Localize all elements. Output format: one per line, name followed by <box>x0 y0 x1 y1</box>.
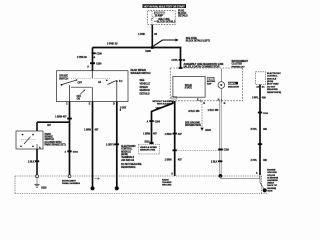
svg-text:STATE: STATE <box>185 87 193 90</box>
wire BRN 437 from cluster to ground bus <box>174 101 176 176</box>
wire BRN 437 left (switch pin C to ground bus) <box>69 102 71 175</box>
fuse F1 GAUGES FUSE label <box>154 12 172 18</box>
svg-text:S210: S210 <box>144 142 150 144</box>
label 1 BRN 437 right wire <box>165 133 183 136</box>
wire to ALDL (arrow) <box>154 39 179 47</box>
instrument cluster dashed box <box>170 68 243 101</box>
ring terminal gray wire <box>219 174 223 178</box>
svg-text:TERMINALS: TERMINALS <box>121 156 134 159</box>
see vehicle speed sensor note <box>140 79 151 96</box>
label 5 PPL 400 <box>252 97 266 100</box>
cluster without-gauges note <box>152 100 172 110</box>
svg-text:3 PNK 39: 3 PNK 39 <box>107 42 118 45</box>
svg-text:INSTRUMENT: INSTRUMENT <box>232 61 249 63</box>
svg-text:PANEL HARNESS: PANEL HARNESS <box>62 182 80 185</box>
svg-text:4 PPL: 4 PPL <box>171 59 178 62</box>
ground bus dashed band <box>15 176 267 194</box>
svg-text:SEE GROUND: SEE GROUND <box>185 123 200 125</box>
svg-text:AMP: AMP <box>207 82 212 85</box>
svg-text:5 PPL: 5 PPL <box>251 128 258 131</box>
ECM label <box>267 73 281 94</box>
svg-text:DISTRIBUTION: DISTRIBUTION <box>185 125 201 127</box>
CHECK GAUGES label <box>228 82 239 89</box>
park brake switch box <box>16 131 43 149</box>
connector C100 <box>90 62 102 65</box>
switch contact right lever <box>106 80 118 85</box>
svg-text:SPEED: SPEED <box>207 78 214 80</box>
svg-text:PARK BRAKE SET): PARK BRAKE SET) <box>45 144 66 147</box>
switch assembly box <box>57 71 129 102</box>
svg-text:ELECTRONIC: ELECTRONIC <box>267 73 281 75</box>
interior stubs <box>70 71 117 102</box>
svg-text:DETAILS: DETAILS <box>178 15 188 18</box>
svg-text:MODULE: MODULE <box>267 78 277 80</box>
tick C210 on BRN wire <box>173 149 177 151</box>
label 1 BRN 437 lower <box>165 159 183 162</box>
ALDL branch label <box>186 38 210 43</box>
svg-text:C200: C200 <box>96 54 102 56</box>
svg-text:A10 AND A9: A10 AND A9 <box>121 159 135 162</box>
svg-text:(ALDL) DATA CONNECTOR: (ALDL) DATA CONNECTOR <box>184 66 220 69</box>
label 1 BLK lower <box>211 160 222 163</box>
svg-text:PRINTED CKT: PRINTED CKT <box>232 66 246 68</box>
svg-text:1 BRN: 1 BRN <box>165 159 172 162</box>
svg-text:1 BLK: 1 BLK <box>28 161 35 164</box>
svg-text:(ECM): (ECM) <box>121 154 128 156</box>
speedometer label <box>185 84 193 90</box>
ALDL note <box>184 63 224 69</box>
svg-text:MODULE: MODULE <box>121 151 131 153</box>
ground dot right <box>115 186 119 190</box>
svg-text:HARNESS: HARNESS <box>267 179 278 182</box>
svg-text:ON: ON <box>77 99 81 101</box>
svg-text:C100: C100 <box>96 63 102 65</box>
wire PNK 39 from fuse down <box>151 25 153 48</box>
OFF ON labels <box>77 96 82 101</box>
label 2 PNK 39 <box>77 57 96 59</box>
splice S208 <box>145 46 153 53</box>
fuse block dashed box <box>148 11 176 25</box>
svg-text:(NEAR: (NEAR <box>267 182 274 185</box>
switch contact left lever <box>61 79 78 86</box>
svg-text:HOT IN RUN, BULB TEST OR START: HOT IN RUN, BULB TEST OR START <box>144 4 185 8</box>
switch box title <box>131 69 151 75</box>
svg-text:BLOCK DETAILS: BLOCK DETAILS <box>157 20 176 23</box>
svg-text:1 BRN: 1 BRN <box>84 129 91 132</box>
power feed bus bar (HOT IN RUN, BULB TEST OR START) <box>143 4 187 8</box>
wire drop to switch <box>92 48 94 71</box>
wire from park brake switch <box>37 121 70 123</box>
svg-text:OFF: OFF <box>78 82 83 84</box>
ECM box <box>256 72 266 85</box>
svg-text:CLUSTER: CLUSTER <box>232 64 243 66</box>
connector C210 tick on ECM wire <box>258 112 262 114</box>
wire BRN 437 center (switch pin E to ground) <box>92 102 94 187</box>
pin D label right <box>120 108 127 113</box>
splice S207 on left wire <box>67 118 72 120</box>
wire drop to park brake switch <box>36 122 38 131</box>
svg-text:2 PPL: 2 PPL <box>251 159 258 162</box>
svg-text:MEASURE: MEASURE <box>267 88 278 91</box>
svg-text:ELECTRONIC: ELECTRONIC <box>121 146 136 148</box>
svg-text:OFF: OFF <box>77 96 82 98</box>
svg-text:SWITCH: SWITCH <box>59 77 68 80</box>
wire PPL 400 from ECM <box>259 85 261 176</box>
vehicle speed sensor dashed box <box>138 144 159 154</box>
label 1 BRN 437 on jog wire <box>143 133 157 136</box>
svg-text:1 BRN: 1 BRN <box>165 133 172 136</box>
ECM note text block <box>121 146 142 169</box>
gauge (check gauges indicator) circle <box>218 69 225 101</box>
svg-text:S208: S208 <box>145 50 151 53</box>
label 2 PPL 400 <box>251 159 268 162</box>
cluster bottom pins <box>197 99 226 105</box>
svg-text:C210: C210 <box>224 150 230 152</box>
svg-text:CHECK: CHECK <box>228 83 236 85</box>
connector C204 tick <box>147 120 161 123</box>
fuse block location note <box>178 10 188 18</box>
svg-text:SENSOR (VSS): SENSOR (VSS) <box>140 150 155 152</box>
cluster title <box>232 61 249 68</box>
svg-text:2 PNK 39: 2 PNK 39 <box>77 57 87 59</box>
ring terminal at ground bus <box>36 175 39 178</box>
twisted pair wire BLK 450 (gray) <box>220 101 222 175</box>
connector C210 dashed link <box>176 149 219 151</box>
svg-text:5 PPL: 5 PPL <box>252 97 259 100</box>
ring terminal left wire <box>68 175 71 178</box>
svg-text:DETAILS: DETAILS <box>140 93 151 96</box>
svg-text:(ECM): (ECM) <box>267 81 273 83</box>
svg-text:WASHER SWITCH: WASHER SWITCH <box>131 72 151 75</box>
park brake switch interior <box>20 134 37 149</box>
connector tick <box>35 160 39 162</box>
svg-text:S204: S204 <box>73 151 79 154</box>
ground splice dot splice <box>90 186 94 190</box>
svg-text:BACK OF: BACK OF <box>267 184 277 187</box>
svg-text:RESISTANCE): RESISTANCE) <box>267 91 281 94</box>
tick on BRN wire <box>173 133 177 135</box>
svg-text:1 BRN 437: 1 BRN 437 <box>55 115 67 118</box>
wire GRY 8 right (switch pin D to ground) <box>116 102 118 187</box>
connector tick on ECM wire <box>258 143 262 145</box>
interior lower bar <box>71 86 92 88</box>
splice S210 <box>144 142 153 145</box>
svg-text:INDICATOR: INDICATOR <box>228 85 239 88</box>
svg-text:CONTROL: CONTROL <box>267 76 278 78</box>
svg-text:M: M <box>183 59 185 62</box>
svg-text:G105: G105 <box>267 190 273 192</box>
interior lower switch <box>80 90 85 95</box>
svg-text:1 BLK: 1 BLK <box>211 161 218 163</box>
arrow marker near ground <box>95 178 100 180</box>
radio capacitor note <box>162 178 172 186</box>
connector C210 tick on gray wire <box>218 149 229 152</box>
speedometer module box <box>173 76 205 97</box>
ground G110 <box>34 178 47 190</box>
buffer label <box>207 77 216 85</box>
park brake switch label <box>45 133 66 147</box>
svg-text:1 PNK: 1 PNK <box>138 33 145 36</box>
label 1 PNK 39 <box>138 33 158 36</box>
svg-text:G: G <box>224 103 226 105</box>
svg-text:DO NOT MEASURE: DO NOT MEASURE <box>121 163 142 166</box>
svg-text:.8 BLK 450: .8 BLK 450 <box>188 110 200 113</box>
label 1 BRN 437 center <box>84 129 99 132</box>
svg-text:GROUND: GROUND <box>162 184 172 186</box>
label 4 PPL <box>171 59 185 62</box>
svg-text:G: G <box>203 103 205 105</box>
svg-text:G103: G103 <box>205 130 211 132</box>
see fuse block details note <box>154 18 176 24</box>
svg-text:ASSEMBLY LINE DIAGNOSTIC LINK: ASSEMBLY LINE DIAGNOSTIC LINK <box>184 63 224 66</box>
svg-text:DO NOT: DO NOT <box>267 86 276 88</box>
svg-text:BLOCK DETAILS (LEFT): BLOCK DETAILS (LEFT) <box>186 40 210 43</box>
connector tick on left BRN wire <box>64 150 78 153</box>
svg-text:RESISTANCE: RESISTANCE <box>121 166 136 169</box>
svg-text:C210: C210 <box>263 113 269 115</box>
svg-text:(NOT USED: (NOT USED <box>267 84 279 86</box>
switch interior dashed link <box>71 77 111 79</box>
tick on GRY wire <box>115 143 119 145</box>
cluster top connector tick <box>179 67 183 69</box>
cluster interior pin box <box>172 96 177 99</box>
instrument panel harness note <box>62 180 80 185</box>
ground wire dashed (cluster to G103) <box>200 101 211 132</box>
fuse element symbol <box>151 17 153 21</box>
wire BRN jog to cluster (diagonal) <box>152 101 173 144</box>
svg-text:C204: C204 <box>155 120 161 123</box>
svg-text:1 BLK 450: 1 BLK 450 <box>208 109 219 112</box>
connector C200 <box>92 52 103 55</box>
gray jumper to engine ground <box>220 176 259 178</box>
wire BLK 450 below park brake switch <box>36 149 38 175</box>
svg-text:VEHICLE SPEED: VEHICLE SPEED <box>140 147 157 149</box>
svg-text:G110: G110 <box>41 188 47 190</box>
svg-text:1 GRY 8: 1 GRY 8 <box>106 144 115 147</box>
main wire 3 PNK 39 horizontal <box>93 48 181 69</box>
label 5 PPL 400 mid <box>251 128 268 131</box>
switch interior: gauges contact label <box>59 75 68 81</box>
see ground distribution note <box>185 123 201 128</box>
splice to engine ground <box>260 176 267 192</box>
engine ground note <box>267 170 278 193</box>
svg-text:CONTROL: CONTROL <box>121 149 133 151</box>
svg-text:1 BRN: 1 BRN <box>143 133 150 136</box>
